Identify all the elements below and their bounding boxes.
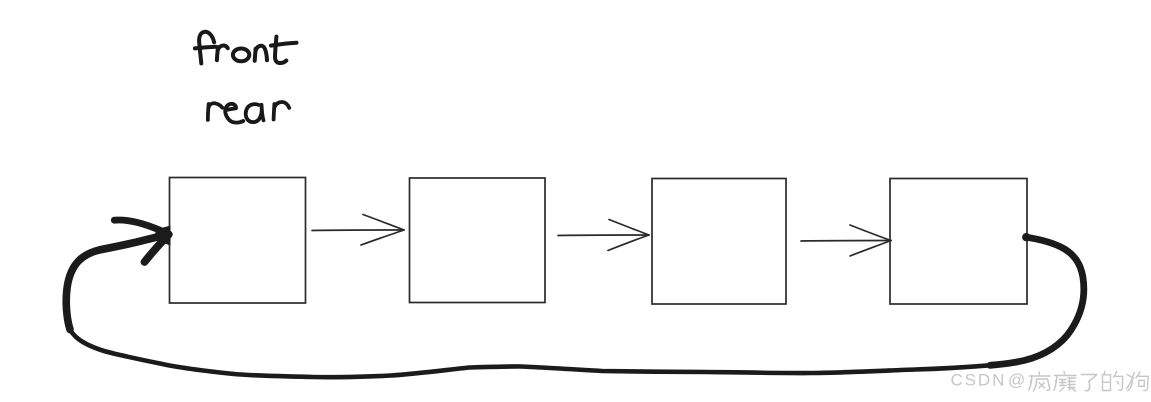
node box 1 [170, 178, 306, 304]
arrowhead into box 1, lower barb [145, 234, 169, 262]
arrowhead into box 1, upper barb [114, 220, 169, 234]
watermark glyph de [1103, 372, 1123, 391]
loop wire shaft into arrowhead [100, 235, 168, 250]
svg-text:CSDN: CSDN [951, 371, 1007, 390]
label front [195, 32, 297, 64]
label rear [208, 102, 289, 123]
watermark CSDN text [951, 371, 1026, 390]
arrow from box 3 to box 4 [801, 225, 891, 256]
arrow from box 1 to box 2 [312, 215, 404, 246]
node box 2 [410, 178, 546, 303]
node box 3 [652, 179, 786, 305]
watermark glyph dian [1054, 372, 1076, 392]
arrow from box 2 to box 3 [558, 220, 649, 251]
loop wire start blob at box 4 [1022, 233, 1030, 241]
watermark glyph feng [1029, 372, 1050, 391]
watermark glyph gou [1127, 372, 1149, 391]
watermark glyph le [1082, 375, 1097, 391]
loop wire left rise [66, 250, 100, 330]
svg-text:@: @ [1008, 371, 1025, 390]
arrowhead tip blob [154, 226, 171, 246]
loop wire bottom run [70, 330, 990, 378]
loop wire right curve [990, 237, 1084, 365]
node box 4 [890, 179, 1027, 305]
